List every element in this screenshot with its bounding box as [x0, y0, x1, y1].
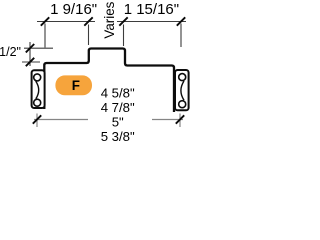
svg-text:5": 5": [112, 114, 124, 129]
svg-text:1 15/16": 1 15/16": [124, 1, 179, 18]
svg-text:1/2": 1/2": [0, 45, 21, 59]
svg-text:F: F: [72, 78, 80, 93]
svg-text:4 5/8": 4 5/8": [101, 85, 135, 100]
svg-text:Varies: Varies: [102, 1, 117, 38]
svg-text:4 7/8": 4 7/8": [101, 100, 135, 115]
svg-text:1 9/16": 1 9/16": [50, 1, 97, 18]
svg-text:5 3/8": 5 3/8": [101, 129, 135, 144]
